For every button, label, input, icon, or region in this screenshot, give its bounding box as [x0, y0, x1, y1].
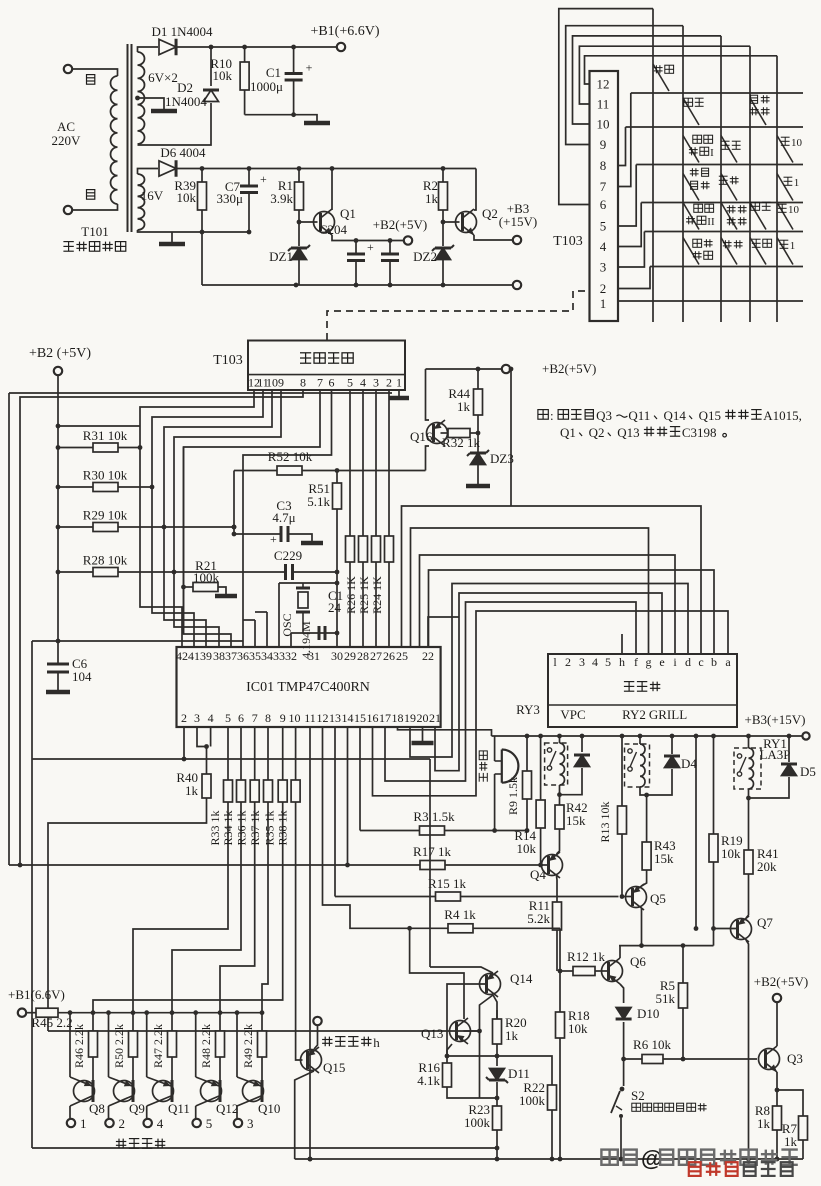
wire IC pin20 to ground	[422, 727, 424, 741]
wire Q13 emitter to R16	[447, 1044, 452, 1056]
svg-text:R49 2.2k: R49 2.2k	[241, 1024, 255, 1068]
svg-text:R25 1K: R25 1K	[357, 576, 371, 614]
wire R12 to Q6 base	[595, 970, 607, 972]
wire R9 to buzzer net	[495, 830, 527, 832]
label 蜂鸣器	[479, 751, 487, 782]
label R42 15k	[566, 800, 588, 828]
wire R4 row to R18	[559, 928, 561, 1012]
node RY3 coil bottom	[557, 792, 562, 797]
svg-text:15: 15	[354, 711, 366, 725]
svg-text:9: 9	[280, 711, 286, 725]
svg-text:36: 36	[237, 649, 249, 663]
wire rail to D5	[788, 736, 790, 762]
resistor R20	[493, 1019, 502, 1044]
wire R21 right to ground	[218, 587, 226, 594]
node R51 top	[335, 468, 340, 473]
svg-text:35: 35	[249, 649, 261, 663]
svg-text:5.2k: 5.2k	[527, 911, 550, 926]
wire R52 left	[233, 471, 235, 535]
wire R47 to base	[171, 1057, 173, 1080]
node pullup row junctions	[138, 445, 237, 574]
wire Q6 emitter to D10	[620, 984, 624, 1003]
wire C1 to bottom	[293, 80, 295, 115]
wire rail to R19	[713, 736, 715, 834]
svg-text:R36 1k: R36 1k	[235, 810, 249, 845]
wire +B2 rail to C6	[57, 641, 59, 664]
wire node to R23	[496, 1098, 498, 1106]
wire center tap to ground	[138, 98, 165, 109]
svg-text:1: 1	[790, 240, 796, 252]
wire R52 to R51 to Q16	[302, 470, 426, 472]
svg-text:D11: D11	[508, 1066, 530, 1081]
svg-text:24: 24	[328, 600, 342, 615]
diode D1 1N4004	[159, 39, 176, 56]
svg-text:6V×2: 6V×2	[148, 70, 178, 85]
wire rail to D4	[671, 736, 673, 754]
resistor R12 1k	[573, 967, 595, 976]
svg-text:T103: T103	[553, 234, 583, 249]
wire Q3 collector to +B2	[776, 1002, 778, 1046]
wire T103 pin4 to row3	[618, 203, 641, 247]
node line B taps	[694, 926, 716, 931]
svg-text:28: 28	[357, 649, 369, 663]
capacitor C229	[286, 564, 293, 580]
label R2 1k	[423, 178, 439, 206]
wire Q9 collector	[108, 1106, 110, 1118]
wire T103 pin5 to row2	[618, 165, 636, 227]
wire C3 right to ground	[288, 534, 312, 541]
node Q5 base	[620, 894, 625, 899]
wire Q3 emitter down	[776, 1072, 778, 1090]
svg-text:+B2(+5V): +B2(+5V)	[373, 217, 427, 232]
resistor R35	[278, 780, 287, 802]
svg-text:DZ1: DZ1	[269, 249, 293, 264]
wire S2 to bottom rail	[620, 1118, 622, 1159]
svg-text:Q14: Q14	[510, 971, 533, 986]
wire pin34 link	[255, 611, 267, 613]
svg-text:6: 6	[238, 711, 244, 725]
svg-text:Q14: Q14	[664, 408, 687, 423]
wire R50 to base	[132, 1057, 134, 1080]
svg-text:220V: 220V	[52, 133, 82, 148]
resistor R10	[240, 62, 249, 90]
switch 火力	[721, 238, 743, 265]
wire base stub Q2	[443, 221, 460, 223]
svg-text:3: 3	[579, 655, 585, 669]
svg-text:R50 2.2k: R50 2.2k	[112, 1024, 126, 1068]
resistor R23	[493, 1106, 502, 1130]
svg-text:R28 10k: R28 10k	[83, 553, 128, 568]
switch 秒1	[777, 238, 795, 265]
wire pin2 down	[183, 727, 185, 759]
node +B1 rail taps	[68, 1010, 265, 1015]
node Q1 base	[297, 220, 302, 225]
resistor R1	[295, 182, 304, 210]
wire R14 to Q4 base	[540, 828, 542, 865]
svg-text:+B2(+5V): +B2(+5V)	[754, 974, 808, 989]
relay RY1 contact	[737, 754, 741, 758]
transistor Q6	[602, 954, 647, 984]
wire Q11 collector	[146, 1106, 148, 1118]
svg-text:R6 10k: R6 10k	[633, 1037, 671, 1052]
wire IC pin18 to +B3 rail	[398, 727, 492, 736]
transformer secondary 6Vx2	[138, 52, 145, 144]
transistor Q10	[243, 1081, 264, 1102]
svg-text:330μ: 330μ	[217, 191, 244, 206]
wire +B1 rail to R10	[244, 47, 246, 62]
relay RY3 coil	[560, 743, 565, 785]
terminal +B2 left	[54, 367, 62, 375]
wire diode to coil node	[560, 768, 583, 795]
terminal ground rail	[513, 281, 521, 289]
crystal OSC 4.194M	[296, 587, 310, 590]
wire rail to diode	[581, 736, 583, 752]
label 显示屏	[624, 682, 660, 692]
wire R10 C1 bottom to ground	[245, 115, 317, 121]
svg-text:i: i	[673, 655, 677, 669]
wire R4 row right	[473, 927, 560, 929]
svg-text:4: 4	[600, 239, 607, 254]
relay RY2 coil	[640, 744, 645, 787]
svg-text:D5: D5	[800, 764, 816, 779]
wire +B3 rail	[492, 735, 803, 737]
svg-text:R31 10k: R31 10k	[83, 428, 128, 443]
wire R9 bottom	[526, 799, 528, 831]
wire IC pin to R35	[282, 727, 284, 780]
svg-text:18: 18	[392, 711, 404, 725]
svg-text:4: 4	[157, 1116, 164, 1131]
wire R38 to Q15 base	[296, 802, 303, 1060]
wire T103 pin11 loop to column4	[579, 46, 750, 104]
wire pin35 stub	[254, 620, 256, 647]
wire matrix row3	[641, 202, 803, 204]
node R20 D11 R22	[495, 1054, 500, 1059]
wire Q14 emitter left	[430, 967, 493, 973]
relay RY3 box	[545, 743, 568, 785]
svg-text:Q1: Q1	[560, 425, 576, 440]
svg-text:Q4: Q4	[530, 867, 546, 882]
label R5 51k	[656, 978, 676, 1006]
wire matrix column 3	[720, 36, 722, 322]
resistor R11 5.2k	[553, 902, 562, 930]
label blue wire 蓝	[87, 75, 95, 85]
label R23 100k	[464, 1102, 491, 1130]
svg-text:C3198: C3198	[682, 425, 717, 440]
node R39 bottom at winding return	[200, 230, 205, 235]
switch 时钟	[719, 174, 739, 201]
wire Q14 base down	[447, 984, 487, 1056]
wire rail branch x696	[695, 736, 697, 929]
relay RY1 coil	[749, 748, 754, 789]
wire matrix column 1	[652, 9, 654, 322]
wire display pin h stub	[621, 634, 623, 654]
resistor R25	[359, 536, 368, 562]
wire Q2 emitter to +B3	[474, 235, 512, 240]
ground keypad pin1	[389, 396, 409, 401]
svg-text:R4 1k: R4 1k	[444, 907, 476, 922]
node R4 Q13coll	[407, 926, 412, 931]
svg-text:R45 2.2: R45 2.2	[31, 1015, 72, 1030]
svg-text:Q9: Q9	[129, 1101, 145, 1116]
resistor R48	[216, 1031, 225, 1057]
wire IC pin22 stub	[428, 617, 459, 647]
resistor R29	[93, 523, 118, 532]
resistor R19	[709, 834, 718, 862]
wire R51 top	[336, 471, 338, 484]
wire R10 to bottom	[244, 90, 246, 115]
wire R3 row left	[360, 830, 420, 832]
node Q5 collector line	[639, 943, 644, 948]
svg-text:f: f	[634, 655, 638, 669]
wire matrix row0	[631, 92, 803, 94]
svg-text:R46 2.2k: R46 2.2k	[72, 1024, 86, 1068]
diode D10	[616, 1008, 632, 1020]
wire matrix row5	[650, 266, 803, 268]
node R40 top	[204, 744, 209, 749]
svg-text:Q7: Q7	[757, 915, 773, 930]
switch 预置	[750, 202, 771, 229]
switch 取消	[750, 238, 772, 265]
wire line A to Q7 base	[714, 929, 737, 946]
svg-text:5: 5	[225, 711, 231, 725]
svg-text:IC01 TMP47C400RN: IC01 TMP47C400RN	[246, 680, 370, 695]
wire RY2 coil top	[639, 736, 641, 744]
wire R48 to base	[219, 1057, 221, 1080]
svg-text:+B1(6.6V): +B1(6.6V)	[8, 987, 65, 1002]
wire matrix column 2	[682, 26, 684, 322]
resistor R23b	[385, 536, 394, 562]
label R39 10k	[174, 178, 196, 205]
wire matrix row2	[636, 164, 803, 166]
wire line A to R5	[682, 946, 684, 983]
label R21 100k	[193, 558, 220, 585]
label R10 10k	[210, 56, 232, 83]
resistor R33	[224, 780, 233, 802]
resistor R8	[773, 1106, 782, 1130]
wire R5 to R6 node	[682, 1008, 684, 1059]
wire R30 column to IC pin41	[152, 487, 194, 647]
svg-text:10k: 10k	[568, 1021, 588, 1036]
resistor R44	[474, 389, 483, 415]
svg-text:7: 7	[600, 179, 607, 194]
svg-text:1: 1	[794, 177, 800, 189]
resistor R26	[346, 536, 355, 562]
svg-text:RY2: RY2	[622, 707, 646, 722]
wire R16 bottom to node	[447, 1087, 497, 1098]
diode D4	[664, 756, 680, 768]
resistor R36	[250, 780, 259, 802]
node R12 tap	[558, 969, 563, 974]
wire IC pin21 loop to pin e	[435, 593, 662, 771]
wire R29 row	[58, 526, 234, 528]
label 去显示屏 h	[322, 1035, 380, 1050]
wire cap to ground rail	[389, 261, 391, 286]
node +B2 q16 tap	[509, 367, 514, 372]
svg-text:10k: 10k	[177, 190, 197, 205]
wire pin34 stub	[266, 612, 268, 647]
node +B2 line taps	[354, 238, 393, 243]
wire AC brown to primary	[72, 204, 118, 210]
label R16 4.1k	[417, 1060, 440, 1088]
svg-text:+B2 (+5V): +B2 (+5V)	[29, 346, 91, 361]
wire D11 to node	[496, 1082, 498, 1098]
svg-text:Q11: Q11	[628, 408, 650, 423]
wire DZ1 to ground rail	[298, 260, 300, 285]
label brown wire 棕	[87, 190, 95, 200]
node R44 top	[476, 367, 481, 372]
switch 启动	[653, 64, 674, 91]
resistor R4 1k	[448, 924, 473, 933]
svg-text:3: 3	[600, 260, 607, 275]
svg-text:29: 29	[344, 649, 356, 663]
svg-text:I: I	[710, 147, 714, 159]
svg-text:42: 42	[176, 649, 188, 663]
resistor R9 1.5k	[523, 771, 532, 799]
svg-text:VPC: VPC	[560, 707, 585, 722]
wire keypad pin3 to matrix resistor	[375, 390, 377, 536]
svg-text:100k: 100k	[193, 570, 220, 585]
svg-text:+B2(+5V): +B2(+5V)	[542, 361, 596, 376]
wire R4 row left	[323, 727, 449, 928]
wire IC pin to R34	[240, 727, 242, 780]
wire buzzer bottom	[494, 774, 496, 831]
resistor R43	[642, 842, 651, 870]
wire matrix resistor to IC pin	[362, 562, 364, 647]
wire R22 to bottom rail	[551, 1110, 553, 1159]
buzzer 蜂鸣器	[502, 750, 519, 783]
wire C229 right	[293, 571, 338, 573]
wire T103 pin12 loop to column5	[585, 56, 778, 84]
transistor Q1	[314, 206, 356, 235]
wire R49 to base	[261, 1057, 263, 1080]
display divider	[548, 704, 737, 706]
wire Q8 emitter	[69, 1013, 71, 1077]
switch 薄块烧烤	[683, 238, 713, 265]
wire R41 to Q7 emitter	[746, 874, 749, 918]
wire R1 to Q1 base node	[298, 210, 300, 246]
capacitor C1 1000u	[285, 61, 313, 81]
svg-text:51k: 51k	[656, 991, 676, 1006]
label R19 10k	[721, 833, 743, 861]
svg-text:R12 1k: R12 1k	[567, 949, 605, 964]
svg-text:1: 1	[600, 296, 607, 311]
svg-text:39: 39	[200, 649, 212, 663]
terminal display drive 5	[193, 1119, 201, 1127]
svg-text:h: h	[373, 1035, 380, 1050]
wire R31 row	[58, 447, 140, 449]
node Q13 base tap	[477, 1029, 482, 1034]
svg-text:1000μ: 1000μ	[250, 79, 283, 94]
svg-text:2: 2	[386, 376, 392, 390]
resistor R32	[448, 429, 470, 438]
resistor R14	[536, 800, 545, 828]
svg-text:Q1: Q1	[340, 206, 356, 221]
wire coil node to R42	[559, 795, 561, 805]
resistor R34	[237, 780, 246, 802]
svg-text:Q3: Q3	[596, 408, 612, 423]
wire Q1 collector	[331, 169, 333, 211]
label R41 20k	[757, 846, 779, 874]
note line2	[560, 425, 726, 440]
svg-text:Q3: Q3	[787, 1051, 803, 1066]
wire Q16 collector down	[426, 446, 430, 471]
diode D5	[781, 764, 797, 776]
terminal AC blue wire	[64, 65, 72, 73]
wire Q12 collector	[195, 1106, 197, 1118]
wire R17 row left	[9, 864, 420, 866]
wire IC pin17 loop to pin f	[385, 602, 636, 781]
transistor Q15	[301, 1047, 322, 1073]
wire matrix resistor to IC pin	[349, 562, 351, 647]
watermark 头条 @电子工程师小李	[601, 1146, 797, 1171]
transistor Q13	[421, 1018, 471, 1044]
wire R35 to stage	[93, 802, 283, 1031]
zener DZ2	[432, 245, 454, 260]
ground C6	[46, 690, 70, 695]
node R5 R6	[681, 1057, 686, 1062]
svg-text:d: d	[685, 655, 691, 669]
svg-text:T101: T101	[81, 224, 108, 239]
svg-text:37: 37	[225, 649, 237, 663]
node OSC taps	[335, 581, 340, 636]
wire IC pin to R36	[254, 727, 256, 780]
svg-text:4.7μ: 4.7μ	[272, 510, 295, 525]
svg-text:R3 1.5k: R3 1.5k	[413, 809, 455, 824]
terminal +B3 right	[802, 732, 809, 739]
svg-text:3: 3	[373, 376, 379, 390]
wire keypad pin1 to ground	[398, 390, 400, 396]
svg-text:1k: 1k	[425, 191, 439, 206]
wire +B2 line to C204	[355, 241, 357, 255]
terminal +B2 5V	[404, 236, 412, 244]
svg-text:R30 10k: R30 10k	[83, 468, 128, 483]
resistor R46	[89, 1031, 98, 1057]
wire 16V winding to D6	[138, 169, 159, 175]
svg-text:R15 1k: R15 1k	[428, 876, 466, 891]
terminal +B2 mid	[502, 365, 510, 373]
wire DZ2 to ground rail	[442, 260, 444, 285]
wire +B1 rail	[58, 1012, 262, 1014]
wire C7 bottom	[248, 193, 250, 233]
svg-text:GRILL: GRILL	[649, 707, 687, 722]
svg-text:Q8: Q8	[89, 1101, 105, 1116]
wire OSC column	[336, 572, 338, 647]
svg-text:11: 11	[597, 97, 610, 112]
svg-text:11: 11	[304, 711, 316, 725]
terminal +B2 bottom right	[773, 994, 781, 1002]
wire IC pin13 to R15 row	[334, 727, 336, 897]
wire IC pin to R38	[295, 727, 297, 780]
wire to R8	[776, 1090, 778, 1106]
svg-text:l: l	[553, 655, 557, 669]
label R51 5.1k	[307, 481, 330, 509]
wire keypad pin6 jog	[243, 390, 332, 647]
wire R43 to Q5 emitter	[642, 870, 647, 886]
switch 微波	[721, 136, 741, 163]
wire matrix resistor to IC pin	[375, 562, 377, 647]
svg-text:Q2: Q2	[482, 206, 498, 221]
wire R40 to Q13 base line	[48, 798, 207, 1031]
wire +B1 to R45	[26, 1012, 36, 1014]
label R8 1k	[755, 1103, 771, 1131]
svg-text:S2: S2	[631, 1088, 645, 1103]
resistor R52	[277, 466, 302, 475]
wire Q1 emitter to +B2	[332, 235, 403, 241]
switch 分10	[777, 136, 803, 163]
wire R46 to base	[92, 1057, 94, 1080]
wire C3 left	[234, 533, 281, 535]
svg-text:12: 12	[317, 711, 329, 725]
